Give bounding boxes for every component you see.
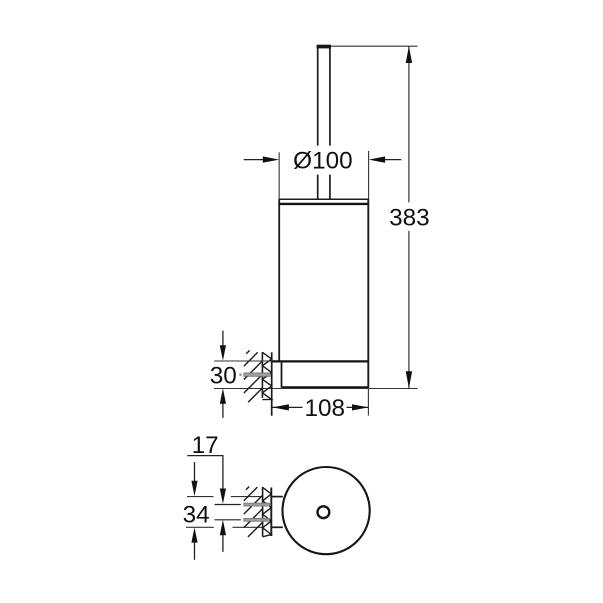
screw tip (side view) (239, 374, 242, 376)
dimension 30 top extension line (214, 360, 272, 362)
screw 2 (bottom view) (244, 518, 270, 521)
screw (side view) (244, 373, 270, 377)
wall anchor zigzag (side view) (262, 352, 271, 399)
bracket bottom edge (bottom view) (271, 526, 283, 528)
svg-text:34: 34 (183, 501, 210, 528)
wall line (side view) (261, 352, 263, 398)
extension line 34 top (187, 496, 263, 498)
holder shell bottom edge (282, 386, 369, 388)
bottom extension line (214, 388, 418, 390)
dimension Ø100 right arrow (369, 156, 402, 162)
screw 2 centerline (215, 519, 241, 521)
dimension text 383 (388, 204, 430, 232)
svg-text:17: 17 (192, 432, 219, 459)
brush handle rod left edge (317, 45, 319, 199)
dimension 34 upper arrow (191, 462, 197, 496)
dimension text 108 (303, 395, 347, 422)
brush handle rod top cap (317, 45, 331, 49)
dimension 108 right extension line (367, 389, 369, 416)
screw 1 centerline (215, 504, 241, 506)
dimension 30 upper arrow (220, 331, 226, 361)
dimension 30 lower arrow (220, 388, 226, 418)
dimension Ø100 left arrow (244, 156, 279, 162)
svg-text:Ø100: Ø100 (293, 147, 352, 174)
extension line from rod top to 383 dimension (331, 45, 418, 47)
wall plate front edge (bottom view) (270, 488, 272, 537)
dimension Ø100 left extension line (278, 152, 280, 199)
dimension 17 upper arrow (220, 456, 226, 504)
lid top line (278, 198, 369, 200)
svg-text:108: 108 (305, 395, 346, 422)
wall anchor zigzag (bottom view) (263, 487, 272, 537)
holder shell left edge (281, 362, 283, 388)
screw hole circle (318, 506, 330, 518)
wall line (bottom view) (262, 487, 264, 537)
container body right edge (367, 200, 369, 389)
dimension 34 lower arrow (191, 527, 197, 560)
dimension text Ø100 (292, 146, 355, 175)
container circle (top view) (283, 467, 370, 554)
lid bottom thick line (278, 203, 369, 205)
screw 1 (bottom view) (244, 503, 270, 506)
container body left edge (278, 200, 280, 362)
wall hatching (side view) (244, 350, 263, 402)
bracket top edge (bottom view) (271, 496, 283, 498)
wall plate front edge (side view, also 108 extension line) (271, 352, 273, 415)
dimension 108 line with outward arrows (273, 404, 369, 410)
seam line between body and holder shell (272, 360, 369, 362)
dimension 17 lower arrow (220, 520, 226, 552)
dimension 383 line with arrows (406, 46, 412, 388)
extension line 34 bottom (186, 526, 263, 528)
svg-text:30: 30 (210, 362, 237, 389)
brush handle rod right edge (329, 45, 331, 199)
wall hatching (bottom view) (244, 487, 263, 538)
svg-text:383: 383 (389, 205, 430, 232)
dimension 17 leader line (187, 455, 223, 457)
dimension Ø100 right extension line (368, 151, 370, 199)
